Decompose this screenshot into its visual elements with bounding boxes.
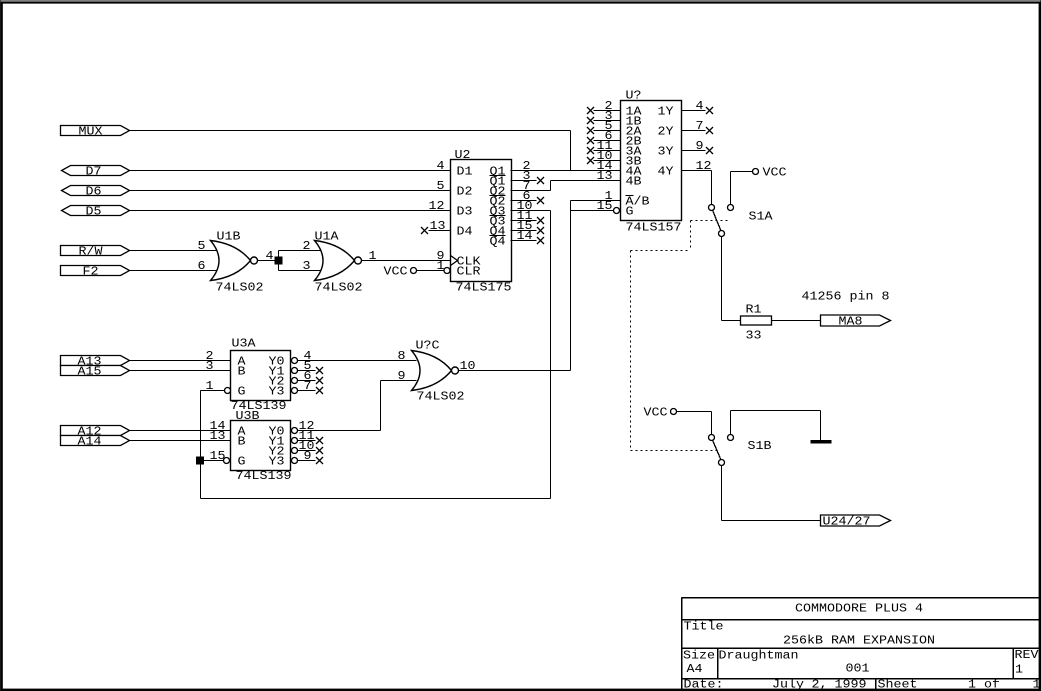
connector MUX [61,126,130,136]
svg-text:U3B: U3B [236,410,260,423]
svg-text:F2: F2 [83,266,99,279]
svg-text:74LS175: 74LS175 [456,282,512,295]
svg-text:8: 8 [398,350,406,363]
ground [811,440,832,444]
svg-text:D6: D6 [86,186,102,199]
svg-text:U2: U2 [455,149,471,162]
wire U1A output to CLK [362,260,451,262]
svg-text:5: 5 [437,180,445,193]
svg-text:S1A: S1A [749,211,773,224]
wire U3B Y0 to U?C pin9 [298,430,381,432]
wire F2 to U1B pin6 [130,270,217,272]
title block frame [681,598,683,690]
svg-text:R1: R1 [746,304,762,317]
connector D7 [62,166,130,176]
wire U3A G enable [201,390,225,392]
svg-text:14: 14 [517,230,533,243]
wire U1B output [258,260,276,262]
wire S1B common to U24/27 [721,466,723,521]
wire S1A common to R1 [721,237,723,321]
connector D6 [62,186,130,196]
svg-text:G: G [238,456,246,469]
connector MA8 [821,315,891,326]
wire VCC to CLR [417,270,444,272]
wire D7 to U2 D1 [130,170,451,172]
svg-text:G: G [626,206,634,219]
node junction G net [197,457,204,464]
svg-text:A15: A15 [78,366,102,379]
svg-text:9: 9 [304,450,312,463]
svg-text:1: 1 [1033,679,1041,691]
wire S1A right terminal to VCC [730,172,732,205]
svg-text:COMMODORE PLUS 4: COMMODORE PLUS 4 [795,603,923,616]
dashed mechanical linkage S1A-S1B [691,220,731,222]
svg-text:256kB RAM EXPANSION: 256kB RAM EXPANSION [783,635,935,648]
svg-text:VCC: VCC [384,266,408,279]
wire U2 Q2bar NC [511,200,537,202]
CLK triangle symbol [451,256,458,266]
svg-text:4: 4 [696,100,704,113]
wire A12 to U3B A [130,430,231,432]
svg-text:5: 5 [198,240,206,253]
wire U2 Q2 to 157 4B jog [511,190,551,192]
svg-text:MUX: MUX [79,126,103,139]
wire U2 Q3 net to G enables [511,210,551,212]
wire A15 to U3A B [130,370,231,372]
svg-text:1: 1 [369,250,377,263]
IC U3B 74LS139 body [231,421,291,471]
wire 157 pin 11 NC [594,150,621,152]
svg-text:July: July [772,679,804,691]
svg-text:1: 1 [206,380,214,393]
wire A14 to U3B B [130,440,231,442]
svg-text:3Y: 3Y [658,146,674,159]
svg-text:A4: A4 [687,663,703,676]
svg-text:S1B: S1B [748,440,772,453]
svg-text:4: 4 [437,160,445,173]
svg-text:7: 7 [696,120,704,133]
svg-text:U3A: U3A [232,338,256,351]
wire U3A Y3 NC [298,390,316,392]
svg-text:VCC: VCC [763,167,787,180]
wire U3A Y0 to U?C pin8 [298,360,417,362]
connector A13 [61,356,130,366]
wire MUX horizontal [130,130,571,132]
svg-text:U?: U? [626,90,642,103]
svg-text:12: 12 [696,160,712,173]
svg-text:B: B [238,436,246,449]
svg-text:Date:: Date: [684,679,724,691]
wire U2 Q3bar NC [511,220,537,222]
resistor R1 [741,316,772,325]
svg-text:2: 2 [303,240,311,253]
svg-text:12: 12 [429,200,445,213]
op... NOR gate U1B [211,241,251,281]
svg-text:Q4: Q4 [490,236,506,249]
svg-text:A14: A14 [78,436,102,449]
wire U?C output [459,370,571,372]
wire VCC to S1B left terminal [677,411,712,413]
wire R1 to MA8 [772,320,821,322]
svg-text:41256 pin 8: 41256 pin 8 [802,291,890,304]
connector D5 [62,206,130,216]
svg-text:Size: Size [683,650,715,663]
wire 157 9Y NC [682,150,706,152]
wire to U1A pin3 [279,270,321,272]
wire U3B G enable [201,460,224,462]
svg-text:Title: Title [684,621,724,634]
svg-text:7: 7 [304,380,312,393]
svg-text:74LS157: 74LS157 [626,222,682,235]
wire U2 Q4 NC [511,230,537,232]
svg-text:4: 4 [266,250,274,263]
svg-text:4Y: 4Y [658,166,674,179]
wire U2 Q1bar NC [511,180,537,182]
wire A/B select net from U?C [571,200,621,202]
svg-text:B: B [238,366,246,379]
svg-text:R/W: R/W [79,246,103,259]
svg-text:3: 3 [206,360,214,373]
svg-text:9: 9 [696,140,704,153]
connector A12 [61,426,130,436]
wire 157 pin 5 NC [594,130,621,132]
switch S1A [709,205,715,211]
wire 4Y output [682,170,712,172]
U3A output bubbles [292,358,298,364]
svg-text:001: 001 [846,663,870,676]
svg-text:U1A: U1A [315,231,339,244]
svg-text:9: 9 [398,370,406,383]
wire G branch [571,210,614,212]
svg-text:1: 1 [1015,664,1023,677]
wire D4 no-connect [429,230,451,232]
wire U3B Y2 NC [298,450,316,452]
wire D6 to U2 D2 [130,190,451,192]
IC U2 74LS175 body [451,160,512,282]
svg-text:10: 10 [460,360,476,373]
svg-text:6: 6 [198,260,206,273]
wire to U1A pin2 [279,250,321,252]
svg-text:VCC: VCC [644,407,668,420]
wire 157 pin 2 NC [594,110,621,112]
wire U3B Y1 NC [298,440,316,442]
wire 157 pin 10 NC [594,160,621,162]
svg-text:1 of: 1 of [968,679,1000,691]
svg-text:U?C: U?C [416,340,440,353]
svg-text:Y3: Y3 [269,386,285,399]
svg-text:REV: REV [1015,649,1039,662]
wire A13 to U3A A [130,360,231,362]
svg-text:74LS02: 74LS02 [417,391,465,404]
svg-text:MA8: MA8 [839,316,863,329]
svg-text:Y3: Y3 [269,456,285,469]
svg-text:74LS02: 74LS02 [315,282,363,295]
svg-text:D1: D1 [457,166,473,179]
wire 157 pin 6 NC [594,140,621,142]
svg-text:2Y: 2Y [658,126,674,139]
svg-text:D2: D2 [457,186,473,199]
svg-text:1Y: 1Y [658,106,674,119]
svg-text:33: 33 [746,330,762,343]
switch S1B [709,435,715,441]
wire U3A Y2 NC [298,380,316,382]
NOR gate U?C [412,351,452,391]
connector F2 [61,266,130,276]
svg-text:U1B: U1B [217,231,241,244]
power VCC at S1A [753,169,759,175]
svg-text:4B: 4B [626,176,642,189]
wire U3B Y3 NC [298,460,316,462]
connector R/W [61,246,130,256]
IC U3A 74LS139 body [231,351,291,401]
wire D5 to U2 D3 [130,210,451,212]
svg-text:1999: 1999 [835,679,867,691]
wire U2 Q4bar NC [511,240,537,242]
node junction U1B out [275,257,282,264]
svg-text:Draughtman: Draughtman [719,650,799,663]
IC U? 74LS157 body [621,101,682,221]
svg-text:U24/27: U24/27 [823,516,871,529]
svg-text:74LS139: 74LS139 [236,470,292,483]
U3B output bubbles [292,428,298,434]
wire 157 pin 3 NC [594,120,621,122]
svg-text:CLR: CLR [457,266,481,279]
wire R/W to U1B pin5 [130,250,217,252]
svg-text:D4: D4 [457,226,473,239]
wire 157 4Y NC [682,110,706,112]
connector A15 [61,366,130,376]
wire S1B right terminal to ground [730,411,732,435]
svg-text:2,: 2, [812,679,828,691]
connector A14 [61,436,130,446]
svg-text:74LS02: 74LS02 [216,282,264,295]
svg-text:D3: D3 [457,206,473,219]
G bubble [614,208,620,214]
wire junction riser [278,251,280,271]
svg-text:15: 15 [210,450,226,463]
wire MUX vertical to 4A net [570,131,572,171]
wire 157 7Y NC [682,130,706,132]
svg-text:3: 3 [303,260,311,273]
svg-text:D7: D7 [86,166,102,179]
svg-text:G: G [238,386,246,399]
CLR bubble [444,268,450,274]
NOR gate U1A [315,241,355,281]
connector U24/27 [821,515,891,526]
svg-text:Sheet: Sheet [878,679,918,691]
svg-text:D5: D5 [86,206,102,219]
svg-text:13: 13 [597,170,613,183]
wire U2 Q1 to 157 4A [511,170,621,172]
svg-text:13: 13 [210,430,226,443]
wire U3A Y1 NC [298,370,316,372]
